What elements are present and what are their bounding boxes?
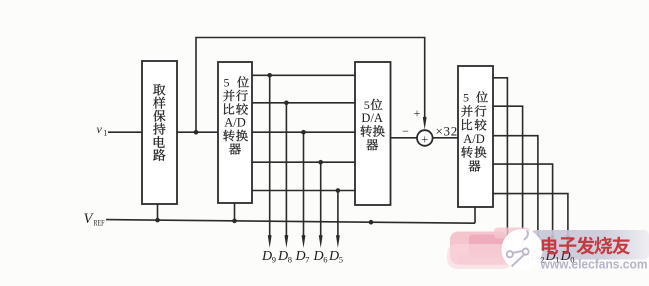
svg-text:D/A: D/A <box>361 111 383 125</box>
svg-text:v: v <box>97 122 103 136</box>
svg-text:D: D <box>295 249 306 264</box>
svg-text:www.elecfans.com: www.elecfans.com <box>540 257 648 272</box>
svg-text:5: 5 <box>364 98 370 112</box>
svg-text:D: D <box>277 249 288 264</box>
svg-text:A/D: A/D <box>224 116 246 130</box>
svg-text:D: D <box>261 249 272 264</box>
svg-text:5: 5 <box>224 75 230 89</box>
svg-text:8: 8 <box>288 255 292 265</box>
svg-text:9: 9 <box>272 255 276 265</box>
svg-text:+: + <box>421 133 428 147</box>
svg-text:A/D: A/D <box>463 132 485 146</box>
svg-text:D: D <box>313 249 324 264</box>
svg-text:7: 7 <box>305 255 309 265</box>
svg-text:REF: REF <box>94 218 105 228</box>
svg-text:+: + <box>414 106 421 120</box>
svg-text:5: 5 <box>339 255 343 265</box>
svg-text:−: − <box>402 124 409 138</box>
svg-text:5: 5 <box>463 90 469 104</box>
svg-text:×32: ×32 <box>436 124 458 139</box>
svg-text:D: D <box>328 249 339 264</box>
svg-text:6: 6 <box>323 255 327 265</box>
svg-text:1: 1 <box>103 128 107 138</box>
